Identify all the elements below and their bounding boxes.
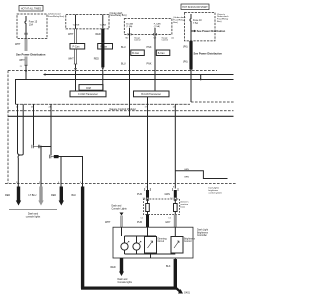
noise filter dashed box bbox=[144, 199, 190, 215]
svg-text:See Power Distribution: See Power Distribution bbox=[194, 51, 223, 55]
svg-text:Dash and: Dash and bbox=[112, 206, 123, 208]
wire continue bbox=[75, 64, 77, 68]
dash light brightness controller box bbox=[113, 227, 209, 258]
thick ground bus horizontal bbox=[81, 287, 176, 290]
svg-text:WHT: WHT bbox=[15, 43, 21, 46]
wire thick continue bbox=[101, 42, 104, 67]
under-hood fuse/relay box (dashed) bbox=[17, 13, 64, 39]
svg-text:RED: RED bbox=[5, 194, 10, 197]
svg-text:PUR: PUR bbox=[137, 221, 142, 224]
svg-text:Dash-lights: Dash-lights bbox=[209, 187, 219, 190]
wire PNK bbox=[147, 35, 156, 92]
connector box B2 bbox=[156, 50, 170, 56]
internal wires bbox=[122, 227, 176, 258]
under-dash fuse/relay box 2 (dashed) bbox=[66, 12, 127, 29]
label dash and console lights bbox=[9, 210, 57, 219]
svg-text:RED: RED bbox=[51, 194, 56, 197]
svg-text:Console Lights: Console Lights bbox=[112, 208, 128, 211]
svg-text:BLK: BLK bbox=[166, 265, 171, 268]
B-CAN transceiver box bbox=[134, 91, 170, 97]
svg-text:LT BLU: LT BLU bbox=[29, 194, 37, 197]
under-dash fuse/relay box 3 (dashed) bbox=[124, 16, 186, 35]
svg-text:B-Can: B-Can bbox=[132, 52, 139, 55]
wire PUR pin bar 2 bbox=[137, 215, 149, 228]
svg-text:Circuit: Circuit bbox=[158, 240, 165, 243]
gauge control module box bottom bbox=[16, 103, 191, 105]
junction dot bus to box bbox=[200, 79, 202, 81]
bus line A with left arrow bbox=[43, 73, 234, 76]
pin labels above dashed 183.5 bbox=[16, 182, 175, 189]
svg-text:control system: control system bbox=[209, 192, 223, 195]
brightness control box bbox=[171, 237, 196, 254]
dashed bottom of module assembly bbox=[8, 110, 234, 112]
see power distribution arrow right bbox=[191, 29, 226, 41]
svg-text:Controller: Controller bbox=[197, 234, 207, 237]
svg-text:BLU: BLU bbox=[121, 46, 126, 49]
dashed segment right bbox=[191, 101, 234, 103]
pin labels under box 3 bbox=[126, 38, 175, 42]
svg-text:Fuse/Relay Box): Fuse/Relay Box) bbox=[110, 15, 127, 17]
svg-text:See Power Distribution: See Power Distribution bbox=[16, 52, 46, 56]
wire BLK to ground bbox=[166, 258, 177, 288]
bulb 2 bbox=[133, 241, 141, 250]
svg-text:HOT IN RUN OR START: HOT IN RUN OR START bbox=[182, 6, 208, 9]
wire junction to V3 bbox=[41, 146, 51, 148]
svg-text:P-Can: P-Can bbox=[73, 46, 80, 49]
wire V3 bbox=[50, 104, 52, 155]
node junction dot bbox=[25, 70, 27, 72]
wire WHT from fuse A bbox=[68, 29, 77, 64]
svg-text:BLK: BLK bbox=[72, 194, 77, 197]
svg-text:F-CAN Transceiver: F-CAN Transceiver bbox=[78, 93, 98, 96]
svg-text:7.5A: 7.5A bbox=[193, 22, 198, 25]
node junction dot 2 bbox=[40, 146, 42, 148]
outer dashed assembly box top bbox=[8, 70, 217, 72]
svg-text:T-LINE: T-LINE bbox=[73, 25, 80, 27]
wire RED output arrow bbox=[111, 258, 133, 284]
wire WHT from fuse 15 bbox=[15, 39, 27, 52]
dash and console lights feed bbox=[105, 206, 128, 228]
svg-text:Box): Box) bbox=[217, 21, 222, 23]
svg-text:Control: Control bbox=[162, 39, 169, 42]
svg-text:B-Can: B-Can bbox=[158, 52, 165, 55]
wire GRN pin bar bbox=[165, 188, 179, 201]
svg-text:Dash Light: Dash Light bbox=[197, 229, 208, 232]
wire GRY pin bar 2 bbox=[165, 215, 177, 228]
fuse 10 7.5A bbox=[190, 14, 202, 29]
full width bus line lower bbox=[8, 115, 234, 117]
wire PUR pin bar bbox=[137, 188, 150, 201]
dashed line bottom of assembly bbox=[5, 183, 236, 185]
wire fuse A into F-CAN bbox=[75, 71, 77, 92]
wire GRN vertical bbox=[174, 104, 176, 188]
wire WHT lower bbox=[19, 57, 27, 71]
wire BLU bbox=[121, 35, 130, 117]
svg-text:Fuse 15: Fuse 15 bbox=[29, 21, 38, 23]
svg-text:WHT: WHT bbox=[68, 33, 74, 36]
node HOT AT ALL TIMES bbox=[19, 6, 43, 12]
gauge control module box top bbox=[16, 80, 234, 105]
wire PUR vertical bbox=[147, 97, 149, 190]
pin bar 4 BLK thick continues bbox=[72, 187, 85, 289]
svg-text:GRN: GRN bbox=[184, 177, 189, 179]
fuse 15 10A bbox=[25, 16, 38, 39]
svg-text:GRY: GRY bbox=[165, 221, 171, 224]
svg-text:Console lights: Console lights bbox=[118, 281, 133, 284]
wire thick from fuse 10 bbox=[183, 41, 222, 70]
wire to module bbox=[25, 71, 27, 80]
F-CAN transceiver box bbox=[70, 91, 106, 97]
wire thin from thick to bus bbox=[190, 70, 192, 75]
svg-text:T-CAN: T-CAN bbox=[100, 24, 107, 27]
bulb 1 bbox=[121, 241, 129, 250]
svg-text:HOT AT ALL TIMES: HOT AT ALL TIMES bbox=[21, 8, 42, 11]
svg-text:See Power Distribution: See Power Distribution bbox=[197, 29, 226, 33]
DIM box bbox=[79, 85, 103, 91]
svg-text:Control: Control bbox=[184, 240, 192, 243]
wire V3 to pin3 bbox=[60, 157, 62, 187]
under-dash fuse/relay box 4 (dashed) bbox=[185, 13, 230, 41]
stub lines to other units bbox=[175, 169, 227, 195]
svg-text:RED: RED bbox=[96, 33, 101, 36]
fuse B wire bbox=[100, 15, 107, 29]
svg-text:21: 21 bbox=[20, 66, 22, 68]
inline connector 1 bbox=[32, 145, 41, 149]
svg-text:WHT: WHT bbox=[105, 221, 111, 224]
fuse A wire bbox=[73, 15, 80, 29]
svg-text:Brightness: Brightness bbox=[184, 237, 196, 240]
connector box P bbox=[70, 44, 85, 50]
svg-text:RED: RED bbox=[111, 266, 116, 269]
svg-text:RED: RED bbox=[94, 58, 99, 61]
svg-text:Dimming: Dimming bbox=[158, 238, 168, 240]
connector box P2 bbox=[98, 44, 113, 50]
svg-text:Brightness: Brightness bbox=[197, 231, 209, 234]
svg-text:PNK: PNK bbox=[147, 62, 152, 65]
ground G401 bbox=[176, 288, 191, 295]
inline connector 2 with black box bbox=[49, 155, 60, 159]
outer dashed left edge bbox=[7, 71, 9, 184]
svg-text:DIM: DIM bbox=[86, 87, 90, 90]
arrow into assembly bbox=[74, 68, 77, 70]
dimming circuit box bbox=[145, 237, 168, 254]
wire V2 down to pin bbox=[40, 147, 42, 187]
svg-text:Control: Control bbox=[134, 39, 141, 42]
svg-text:PUR: PUR bbox=[137, 193, 142, 196]
fuse C label and stub bbox=[126, 23, 133, 36]
svg-text:(P6): (P6) bbox=[183, 46, 188, 49]
wire V1 RED (two pins merging) bbox=[18, 104, 24, 186]
svg-text:Fuse/Relay Box): Fuse/Relay Box) bbox=[48, 16, 64, 18]
pin bar 1 RED with arrow bbox=[5, 187, 21, 206]
wire thick RED from fuse B bbox=[96, 29, 105, 43]
resistor 2 bbox=[174, 199, 178, 215]
svg-text:PNK: PNK bbox=[147, 46, 152, 49]
node HOT IN RUN OR START bbox=[181, 4, 209, 10]
svg-text:brightness: brightness bbox=[209, 189, 219, 192]
svg-text:console lights: console lights bbox=[26, 216, 41, 219]
wire thin into DIM bbox=[102, 70, 104, 92]
wire right branch vertical bbox=[190, 75, 192, 103]
svg-text:10A: 10A bbox=[29, 24, 34, 27]
svg-text:Box): Box) bbox=[173, 22, 178, 24]
svg-text:WHT: WHT bbox=[19, 59, 25, 62]
fuse D label and stub bbox=[154, 23, 161, 36]
module bottom pin labels bbox=[16, 106, 176, 108]
resistor 1 bbox=[146, 199, 150, 215]
pin bar 3 RED with arrow bbox=[51, 187, 64, 206]
wire horizontal to BLK pin bbox=[59, 157, 83, 187]
svg-text:GRN: GRN bbox=[165, 193, 171, 196]
svg-text:box): box) bbox=[181, 207, 186, 209]
svg-text:Dash and: Dash and bbox=[118, 279, 129, 281]
svg-text:G401: G401 bbox=[184, 292, 191, 295]
svg-text:GRN: GRN bbox=[184, 169, 189, 171]
svg-text:WHT: WHT bbox=[68, 58, 74, 61]
label See Power Distribution bbox=[16, 52, 46, 56]
svg-text:B-CAN Transceiver: B-CAN Transceiver bbox=[141, 93, 161, 96]
svg-text:(Gauge Control Module): (Gauge Control Module) bbox=[109, 108, 136, 111]
svg-text:BLU: BLU bbox=[121, 62, 126, 65]
svg-text:(2): (2) bbox=[172, 38, 175, 40]
pin bar 2 LT BLU gray with arrow bbox=[29, 187, 44, 206]
wire V2 bbox=[33, 104, 35, 145]
connector box B1 bbox=[131, 50, 145, 56]
svg-text:(P6): (P6) bbox=[183, 61, 188, 64]
